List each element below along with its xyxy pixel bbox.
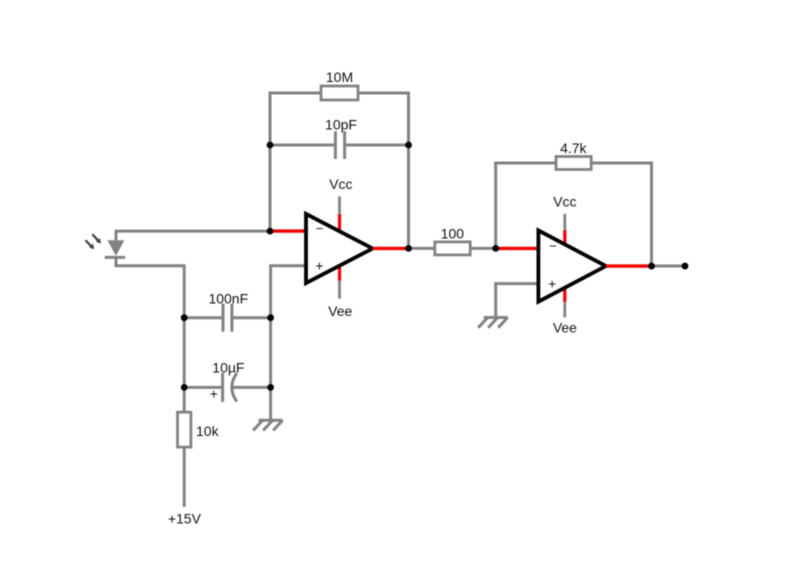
wire 10pF left lead [270,144,335,147]
svg-text:Vcc: Vcc [329,176,352,192]
photodiode D1 [86,234,126,257]
svg-text:Vcc: Vcc [553,194,576,210]
wire 100nF right lead [232,316,271,319]
wire 10uF left lead [184,386,222,389]
wire non-inverting input U2 to ground [496,284,539,318]
svg-text:Vee: Vee [553,320,577,336]
wire Vcc lead op-amp U1 [338,196,341,214]
wire ground rail 100nF to 10uF [269,318,272,388]
svg-text:10k: 10k [196,423,220,439]
resistor R 100 [435,242,470,255]
wire red Vee stub U1 [339,261,341,263]
wire red Vcc stub U2 [563,231,566,247]
node output terminal [682,263,689,270]
node junction 100nF right [267,314,274,321]
svg-text:+: + [548,276,556,291]
svg-text:−: − [549,238,557,253]
op-amp U2 [538,230,606,301]
wire 10M to feedback right vertical [358,93,409,248]
node junction 10pF left [267,142,274,149]
wire bias rail 100nF to 10uF [183,318,186,388]
svg-text:−: − [316,221,324,236]
wire red output U1 [373,247,409,250]
ground GND1 [253,420,283,430]
node junction 100nF left [181,314,188,321]
node junction inverting input U1 [267,228,274,235]
wire red Vee stub U2 [563,286,566,302]
svg-text:100nF: 100nF [208,290,248,306]
resistor 10M [321,86,358,100]
wire output U2 to terminal [652,265,686,268]
node junction 10uF left [181,384,188,391]
wire Vcc lead op-amp U2 [563,214,566,231]
wire red Vcc stub U1 [338,214,341,234]
node junction output U1 [405,245,412,252]
wire ground rail down to GND1 [269,387,272,420]
capacitor C 100nF [223,304,232,332]
wire 10uF right lead [232,386,271,389]
node junction 10pF right [405,142,412,149]
wire 10pF right lead [345,144,409,147]
node junction inverting input U2 [492,245,499,252]
svg-text:10pF: 10pF [325,116,357,132]
wire feedback left vertical [270,93,321,231]
wire photodiode anode to inverting node [116,231,270,241]
wire red inverting input op-amp U1 [270,229,306,232]
svg-text:10M: 10M [326,69,353,85]
wire feedback2 left vertical [496,163,556,248]
resistor 10k [178,412,191,447]
node junction output U2 [648,263,655,270]
svg-text:Vee: Vee [328,303,352,319]
wire photodiode cathode down to bias rail [116,257,184,318]
wire 10k to +15V [183,447,186,507]
wire feedback2 right vertical [591,163,651,266]
svg-text:100: 100 [441,225,465,241]
wire bias rail 10uF to 10k resistor [183,387,186,412]
wire non-inverting input U1 [271,266,306,318]
svg-text:+15V: +15V [168,510,202,526]
wire Vee lead op-amp U2 [563,302,566,317]
svg-text:+: + [315,258,323,273]
wire Vee lead op-amp U1 [338,281,341,299]
wire output U1 to resistor 100 [409,247,435,250]
node junction 10uF right [267,384,274,391]
wire red inverting input op-amp U2 [496,247,539,250]
ground GND2 [478,318,508,328]
svg-text:10µF: 10µF [212,359,244,375]
wire red output U2 [606,264,652,267]
svg-text:4.7k: 4.7k [560,140,587,156]
svg-text:+: + [210,386,218,401]
capacitor C 10pF [335,131,344,159]
op-amp U1 [306,214,373,283]
capacitor C 10uF polarized [223,373,237,402]
wire 100nF left lead [184,316,223,319]
resistor 4.7k [556,157,591,170]
wire resistor 100 to node [470,247,496,250]
